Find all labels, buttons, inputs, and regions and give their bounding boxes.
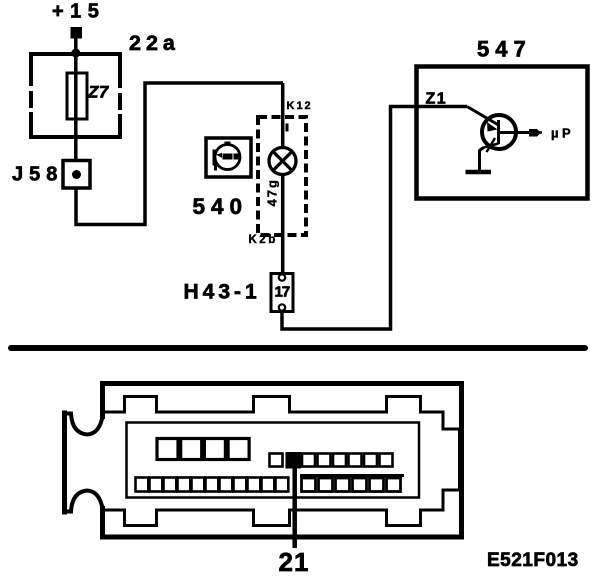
svg-text:E521F013: E521F013 <box>487 550 579 571</box>
junction dot at box top <box>71 49 80 58</box>
svg-text:J58: J58 <box>12 164 63 186</box>
connector housing outer box <box>103 384 462 538</box>
svg-text:22a: 22a <box>129 31 180 55</box>
connector H43-1 <box>271 274 293 312</box>
pin tick 1 <box>286 124 289 132</box>
svg-text:K2b: K2b <box>249 234 278 246</box>
ground <box>480 148 484 171</box>
pin row C right strip <box>300 474 404 477</box>
svg-text:H43-1: H43-1 <box>184 281 261 304</box>
connector J58 <box>63 161 90 189</box>
svg-text:47g: 47g <box>265 178 280 206</box>
connector housing inner outline with tabs <box>103 397 460 526</box>
control unit 547 box <box>417 67 588 199</box>
wire lamp vertical through module 540 <box>281 83 285 274</box>
mounting clip <box>62 411 67 515</box>
svg-text:Z7: Z7 <box>87 83 110 102</box>
icon instrument illumination <box>206 138 251 177</box>
pin field rect <box>127 423 420 498</box>
fuse box 22a (border with small gaps) <box>29 52 122 139</box>
svg-text:Z1: Z1 <box>426 91 448 108</box>
pin 21 leader line <box>292 466 297 548</box>
output arrow <box>529 129 541 137</box>
pin row A <box>157 439 249 460</box>
terminal square at +15 <box>71 27 83 39</box>
svg-text:21: 21 <box>279 547 310 576</box>
svg-text:547: 547 <box>477 37 532 62</box>
svg-text:µP: µP <box>551 126 574 141</box>
separator line <box>8 345 588 351</box>
svg-text:540: 540 <box>193 194 249 219</box>
fuse Z7 <box>67 73 87 119</box>
lamp L1 (circle with X) <box>269 148 296 175</box>
svg-text:17: 17 <box>275 284 290 301</box>
svg-text:+15: +15 <box>52 1 105 23</box>
wire H43-1 to control unit 547 <box>282 107 467 330</box>
pin row B with pin 21 <box>270 454 393 467</box>
pin 21 (filled) <box>286 452 302 469</box>
svg-text:K12: K12 <box>287 100 313 112</box>
wire +15 down through fuse to J58 <box>74 38 78 162</box>
wire J58 to lamp input K12 <box>76 83 283 225</box>
pin row C left <box>136 478 289 492</box>
transistor Q1 <box>467 107 531 153</box>
lamp module 540 (dashed box) <box>258 117 306 235</box>
